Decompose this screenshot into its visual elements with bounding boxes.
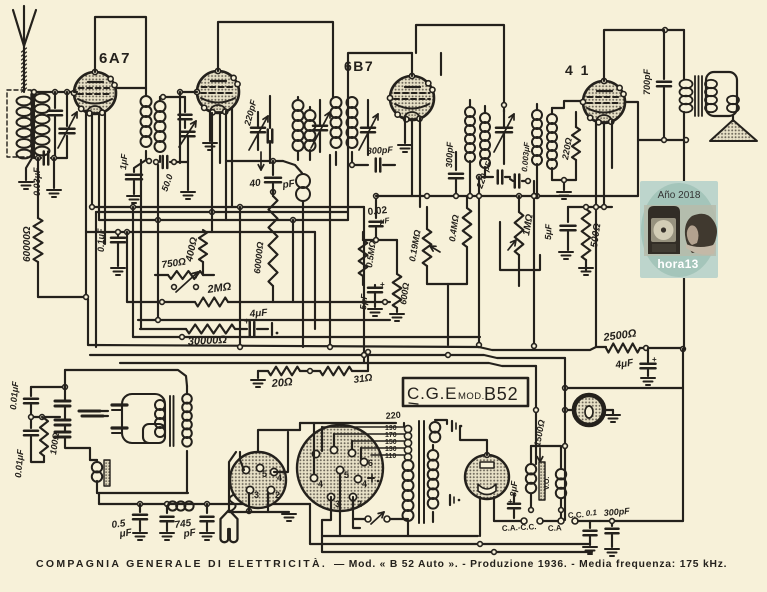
tube V3 6B7 bbox=[390, 76, 434, 120]
wire contacts to transformer bbox=[89, 448, 91, 460]
wire rectifier bottom leads bbox=[479, 497, 481, 536]
switch on-off bbox=[365, 516, 371, 522]
svg-text:+: + bbox=[244, 316, 249, 326]
svg-text:COMPAGNIA GENERALE DI ELETTRIC: COMPAGNIA GENERALE DI ELETTRICITÀ. bbox=[36, 557, 327, 570]
svg-text:2: 2 bbox=[357, 499, 362, 509]
svg-text:Año 2018: Año 2018 bbox=[658, 190, 701, 201]
resistor 1M ohm bbox=[515, 212, 524, 255]
wire bus rail3 bbox=[120, 363, 536, 366]
svg-text:C.G.E: C.G.E bbox=[407, 384, 457, 403]
resistor 60000 ohm bbox=[37, 158, 39, 218]
wire y388 link bbox=[565, 387, 683, 389]
terminal cap bottom bbox=[449, 495, 451, 505]
coil L3 IF1 primary bbox=[141, 96, 152, 107]
svg-text:MOD.: MOD. bbox=[458, 391, 485, 402]
tube V5 rectifier bbox=[465, 455, 509, 499]
vibrator frame contact stubs bbox=[112, 403, 127, 406]
svg-text:110: 110 bbox=[385, 453, 396, 460]
wire rail y232 bbox=[86, 231, 315, 233]
svg-text:3: 3 bbox=[254, 490, 259, 500]
coil V.O. field left bbox=[526, 464, 536, 474]
wire transformer bottom bbox=[407, 522, 409, 536]
svg-text:hora13: hora13 bbox=[657, 257, 698, 271]
svg-text:6B7: 6B7 bbox=[344, 58, 374, 74]
wires 6A7 pins down bbox=[85, 111, 87, 299]
speaker cone bbox=[710, 120, 757, 141]
svg-text:6A7: 6A7 bbox=[99, 50, 131, 67]
antenna mast bbox=[13, 10, 24, 92]
arrow avc bbox=[260, 152, 262, 170]
coil L7 bbox=[331, 97, 342, 108]
wire 6B7 top loop bbox=[411, 53, 413, 76]
wire fork spring bbox=[230, 487, 237, 511]
resistor 220 ohm grid bbox=[572, 127, 580, 160]
power transformer core bbox=[418, 421, 420, 523]
wire 220 tap bbox=[300, 422, 396, 424]
resistor 31 ohm bbox=[300, 370, 320, 372]
resistor 60000 ohm osc bbox=[269, 196, 278, 286]
svg-text:300pF: 300pF bbox=[367, 145, 394, 156]
wire top rail 6B7 grid bbox=[348, 53, 412, 97]
resistor 400 ohm bbox=[199, 230, 207, 262]
power transformer tap coils bbox=[404, 425, 411, 432]
svg-text:4: 4 bbox=[318, 479, 323, 489]
resistor 0.19M ohm bbox=[423, 229, 432, 266]
wire osc jdot bbox=[502, 103, 507, 108]
wire V2 anode top loop bbox=[218, 22, 333, 97]
svg-text:pF: pF bbox=[182, 527, 198, 540]
svg-text:4: 4 bbox=[277, 473, 282, 483]
svg-text:1μF: 1μF bbox=[118, 153, 129, 170]
wire y493 bbox=[97, 492, 188, 494]
wire 41 plate to output bbox=[625, 102, 686, 140]
coil L10 IF2 secondary bbox=[480, 113, 490, 123]
vibrator transformer primary bbox=[155, 400, 165, 410]
resistor 500 ohm bias bbox=[582, 209, 591, 260]
wire y417 bbox=[31, 416, 60, 418]
wire rectifier top bbox=[460, 426, 487, 455]
wire verticals mid mesh bbox=[126, 232, 128, 302]
wires 6B7 pins bbox=[411, 120, 413, 196]
svg-text:170: 170 bbox=[385, 432, 397, 439]
wire field coil frame bbox=[531, 446, 561, 466]
svg-text:C.A.-C.C.: C.A.-C.C. bbox=[502, 522, 537, 533]
ground 600 bbox=[390, 313, 404, 315]
tube V1 6A7 bbox=[74, 72, 116, 114]
svg-text:0.1: 0.1 bbox=[585, 508, 597, 518]
wire IF1 bottom bbox=[147, 159, 152, 164]
output transformer primary bbox=[683, 30, 685, 79]
ground 6B7 cathode bbox=[404, 118, 406, 143]
wire 41 grid top bbox=[552, 101, 583, 108]
wire x534 down bbox=[533, 181, 535, 346]
coil L5 osc primary bbox=[293, 100, 304, 111]
wire bottom rail b bbox=[322, 551, 592, 553]
capacitor 0.1uF grid bbox=[117, 232, 119, 236]
svg-text:2: 2 bbox=[275, 490, 280, 500]
coil L11 IF3 primary bbox=[532, 110, 542, 120]
tube V4 41 bbox=[583, 81, 625, 123]
nameplate CGE B52 box bbox=[403, 378, 528, 406]
svg-text:700pF: 700pF bbox=[642, 68, 652, 95]
svg-text:+: + bbox=[508, 497, 513, 506]
svg-text:5: 5 bbox=[344, 470, 349, 480]
capacitor 1uF IF1 bbox=[134, 160, 146, 172]
wire bottom rail a bbox=[310, 543, 590, 545]
wire bus rail1 bbox=[88, 345, 606, 350]
wire 41 top loop bbox=[604, 30, 684, 81]
wire IF1 top bbox=[116, 87, 146, 89]
vibrator plug fork bbox=[221, 510, 238, 542]
wire socket S1 leads bbox=[274, 432, 288, 472]
variable capacitor det bbox=[361, 127, 375, 130]
ground 220 bbox=[563, 180, 565, 190]
coil L12 IF3 secondary bbox=[547, 114, 557, 124]
coil L1 antenna primary bbox=[17, 97, 32, 106]
ground antenna primary bbox=[19, 181, 33, 183]
svg-text:+: + bbox=[380, 280, 385, 289]
svg-text:6: 6 bbox=[368, 458, 373, 468]
coil vibrator choke bbox=[92, 462, 102, 472]
dashed coupling box bbox=[7, 90, 31, 157]
wire vib top bbox=[31, 386, 65, 388]
svg-text:5μF: 5μF bbox=[358, 293, 369, 310]
wire rail y320 bbox=[138, 319, 390, 321]
power transformer secondary bbox=[428, 450, 439, 461]
svg-text:4: 4 bbox=[362, 479, 367, 489]
wire rail y220 bbox=[99, 219, 348, 221]
coil L9 IF2 primary bbox=[465, 107, 475, 117]
wire V2 grid bbox=[180, 91, 197, 93]
ground 0.1 bbox=[583, 546, 597, 548]
variable capacitor IF2 bbox=[496, 127, 512, 130]
coil L2 antenna secondary bbox=[35, 94, 50, 103]
wires 41 pins down bbox=[595, 122, 597, 347]
svg-text:300pF: 300pF bbox=[444, 141, 455, 168]
resistor 0.5M ohm bbox=[359, 240, 368, 276]
ground lamp bbox=[606, 414, 620, 416]
watermark hora13 badge bbox=[640, 181, 718, 278]
wire y207 link41 bbox=[568, 206, 612, 208]
wire y520 to right bbox=[600, 520, 683, 522]
terminal cap end bbox=[271, 323, 273, 335]
socket S1 vibrator bbox=[230, 452, 286, 508]
wire antenna bottom y158 bbox=[34, 157, 41, 159]
wire grid 41 bbox=[552, 179, 576, 181]
wire socket S2 leads bbox=[322, 497, 331, 536]
coil choke osc bbox=[283, 161, 302, 173]
wires V2 pins bbox=[211, 113, 213, 232]
svg-text:40: 40 bbox=[248, 177, 262, 190]
socket S2 power bbox=[297, 425, 383, 511]
ground IF1 right bbox=[187, 162, 189, 190]
variable capacitor band bbox=[313, 125, 327, 128]
svg-text:V.O.: V.O. bbox=[544, 477, 551, 490]
svg-text:+: + bbox=[652, 355, 657, 364]
svg-text:5: 5 bbox=[262, 469, 267, 479]
ground socket S1 bbox=[282, 513, 296, 515]
output transformer secondary frame bbox=[706, 72, 737, 116]
svg-text:20Ω: 20Ω bbox=[270, 376, 293, 390]
svg-text:150: 150 bbox=[385, 439, 397, 446]
wire y240 link bbox=[363, 239, 397, 241]
wire 6A7 anode top loop bbox=[95, 17, 146, 96]
vibrator contacts bbox=[55, 400, 70, 403]
svg-text:C.A: C.A bbox=[548, 523, 562, 533]
ground 0.1uF bbox=[111, 267, 125, 269]
coil V.O. field right bbox=[556, 469, 566, 479]
wires socket S2 top pins to taps bbox=[321, 427, 323, 451]
svg-text:pF: pF bbox=[281, 178, 297, 191]
capacitor 745pF a bbox=[166, 506, 168, 513]
ground 0.5uF bbox=[133, 532, 147, 534]
output transformer core bbox=[694, 76, 696, 116]
wire y504 long bbox=[99, 503, 310, 505]
resistor 0.4M ohm bbox=[463, 208, 472, 247]
svg-text:190: 190 bbox=[385, 425, 397, 432]
wire y196 bbox=[376, 195, 638, 197]
ground 5uF bbox=[368, 308, 382, 310]
svg-text:130: 130 bbox=[385, 446, 397, 453]
svg-text:B52: B52 bbox=[484, 384, 518, 404]
coil L6 osc tickler bbox=[305, 110, 316, 121]
variable capacitor IF1 bbox=[182, 131, 195, 134]
wire rail y212 bbox=[96, 211, 348, 213]
capacitor IF1 fixed bbox=[184, 97, 186, 112]
coil L8 bbox=[347, 97, 358, 108]
wire lamp leads bbox=[565, 409, 574, 411]
terminal cap top bbox=[451, 421, 453, 431]
capacitor antenna coupling bbox=[54, 92, 56, 108]
ground 745 a bbox=[160, 532, 174, 534]
ground 0.03uF bbox=[53, 158, 55, 188]
wire grid bus y92 bbox=[32, 91, 77, 93]
variable capacitor osc bbox=[251, 127, 265, 130]
tube V2 bbox=[197, 71, 239, 113]
wire socket S1 bottom rail bbox=[229, 511, 289, 513]
resistor 20 ohm bbox=[251, 379, 265, 381]
power transformer top winding bbox=[430, 422, 441, 433]
svg-text:60000Ω: 60000Ω bbox=[22, 226, 33, 262]
capacitor 745pF b bbox=[206, 504, 208, 513]
svg-text:μF: μF bbox=[118, 527, 133, 540]
vibrator transformer core bbox=[169, 396, 171, 446]
svg-text:220: 220 bbox=[385, 410, 401, 421]
coil 745 choke bbox=[168, 501, 177, 510]
power transformer primary bbox=[403, 460, 414, 471]
wire terminal row bbox=[494, 520, 521, 522]
capacitor 5uF agc bbox=[368, 287, 382, 290]
wire x565 down bbox=[564, 358, 566, 520]
wire 6A7 grid lead bbox=[74, 91, 77, 93]
vibrator primary frame bbox=[122, 394, 165, 443]
ground 300pF bbox=[605, 548, 619, 550]
ground V2 cathode bbox=[209, 112, 211, 141]
vibrator transformer secondary bbox=[182, 394, 192, 404]
wire rail y207 bbox=[92, 206, 364, 208]
resistor 30000 ohm with 4uF cap bbox=[140, 328, 186, 330]
ground 1uF bbox=[127, 195, 141, 197]
ground 500 bbox=[579, 267, 593, 269]
capacitor socket S2 small bbox=[368, 477, 374, 479]
wire bus rail2 bbox=[90, 355, 565, 358]
coil L4 IF1 secondary bbox=[155, 101, 166, 112]
ground 4uF bbox=[641, 377, 655, 379]
svg-text:4μF: 4μF bbox=[248, 307, 268, 320]
wire x683 b-plus bbox=[683, 140, 685, 349]
svg-text:4 1: 4 1 bbox=[565, 62, 590, 78]
resistor 100 ohm bbox=[40, 418, 48, 456]
resistor 600 ohm bbox=[393, 274, 402, 308]
ground 5uF output bbox=[559, 251, 573, 253]
wire y284 bbox=[427, 283, 467, 285]
terminals CA CC bbox=[521, 518, 527, 524]
pilot lamp bbox=[574, 395, 604, 425]
wire bus railA bbox=[133, 336, 480, 338]
svg-text:— Mod. « B 52 Auto ». - Produz: — Mod. « B 52 Auto ». - Produzione 1936.… bbox=[334, 559, 727, 570]
variable capacitor tuning C1 bbox=[66, 92, 68, 126]
wire x479 down bbox=[478, 177, 480, 345]
svg-text:C.C.: C.C. bbox=[568, 510, 584, 520]
svg-text:5μF: 5μF bbox=[543, 223, 554, 240]
ground 745 b bbox=[200, 532, 214, 534]
wire 1M frame bbox=[500, 222, 540, 270]
